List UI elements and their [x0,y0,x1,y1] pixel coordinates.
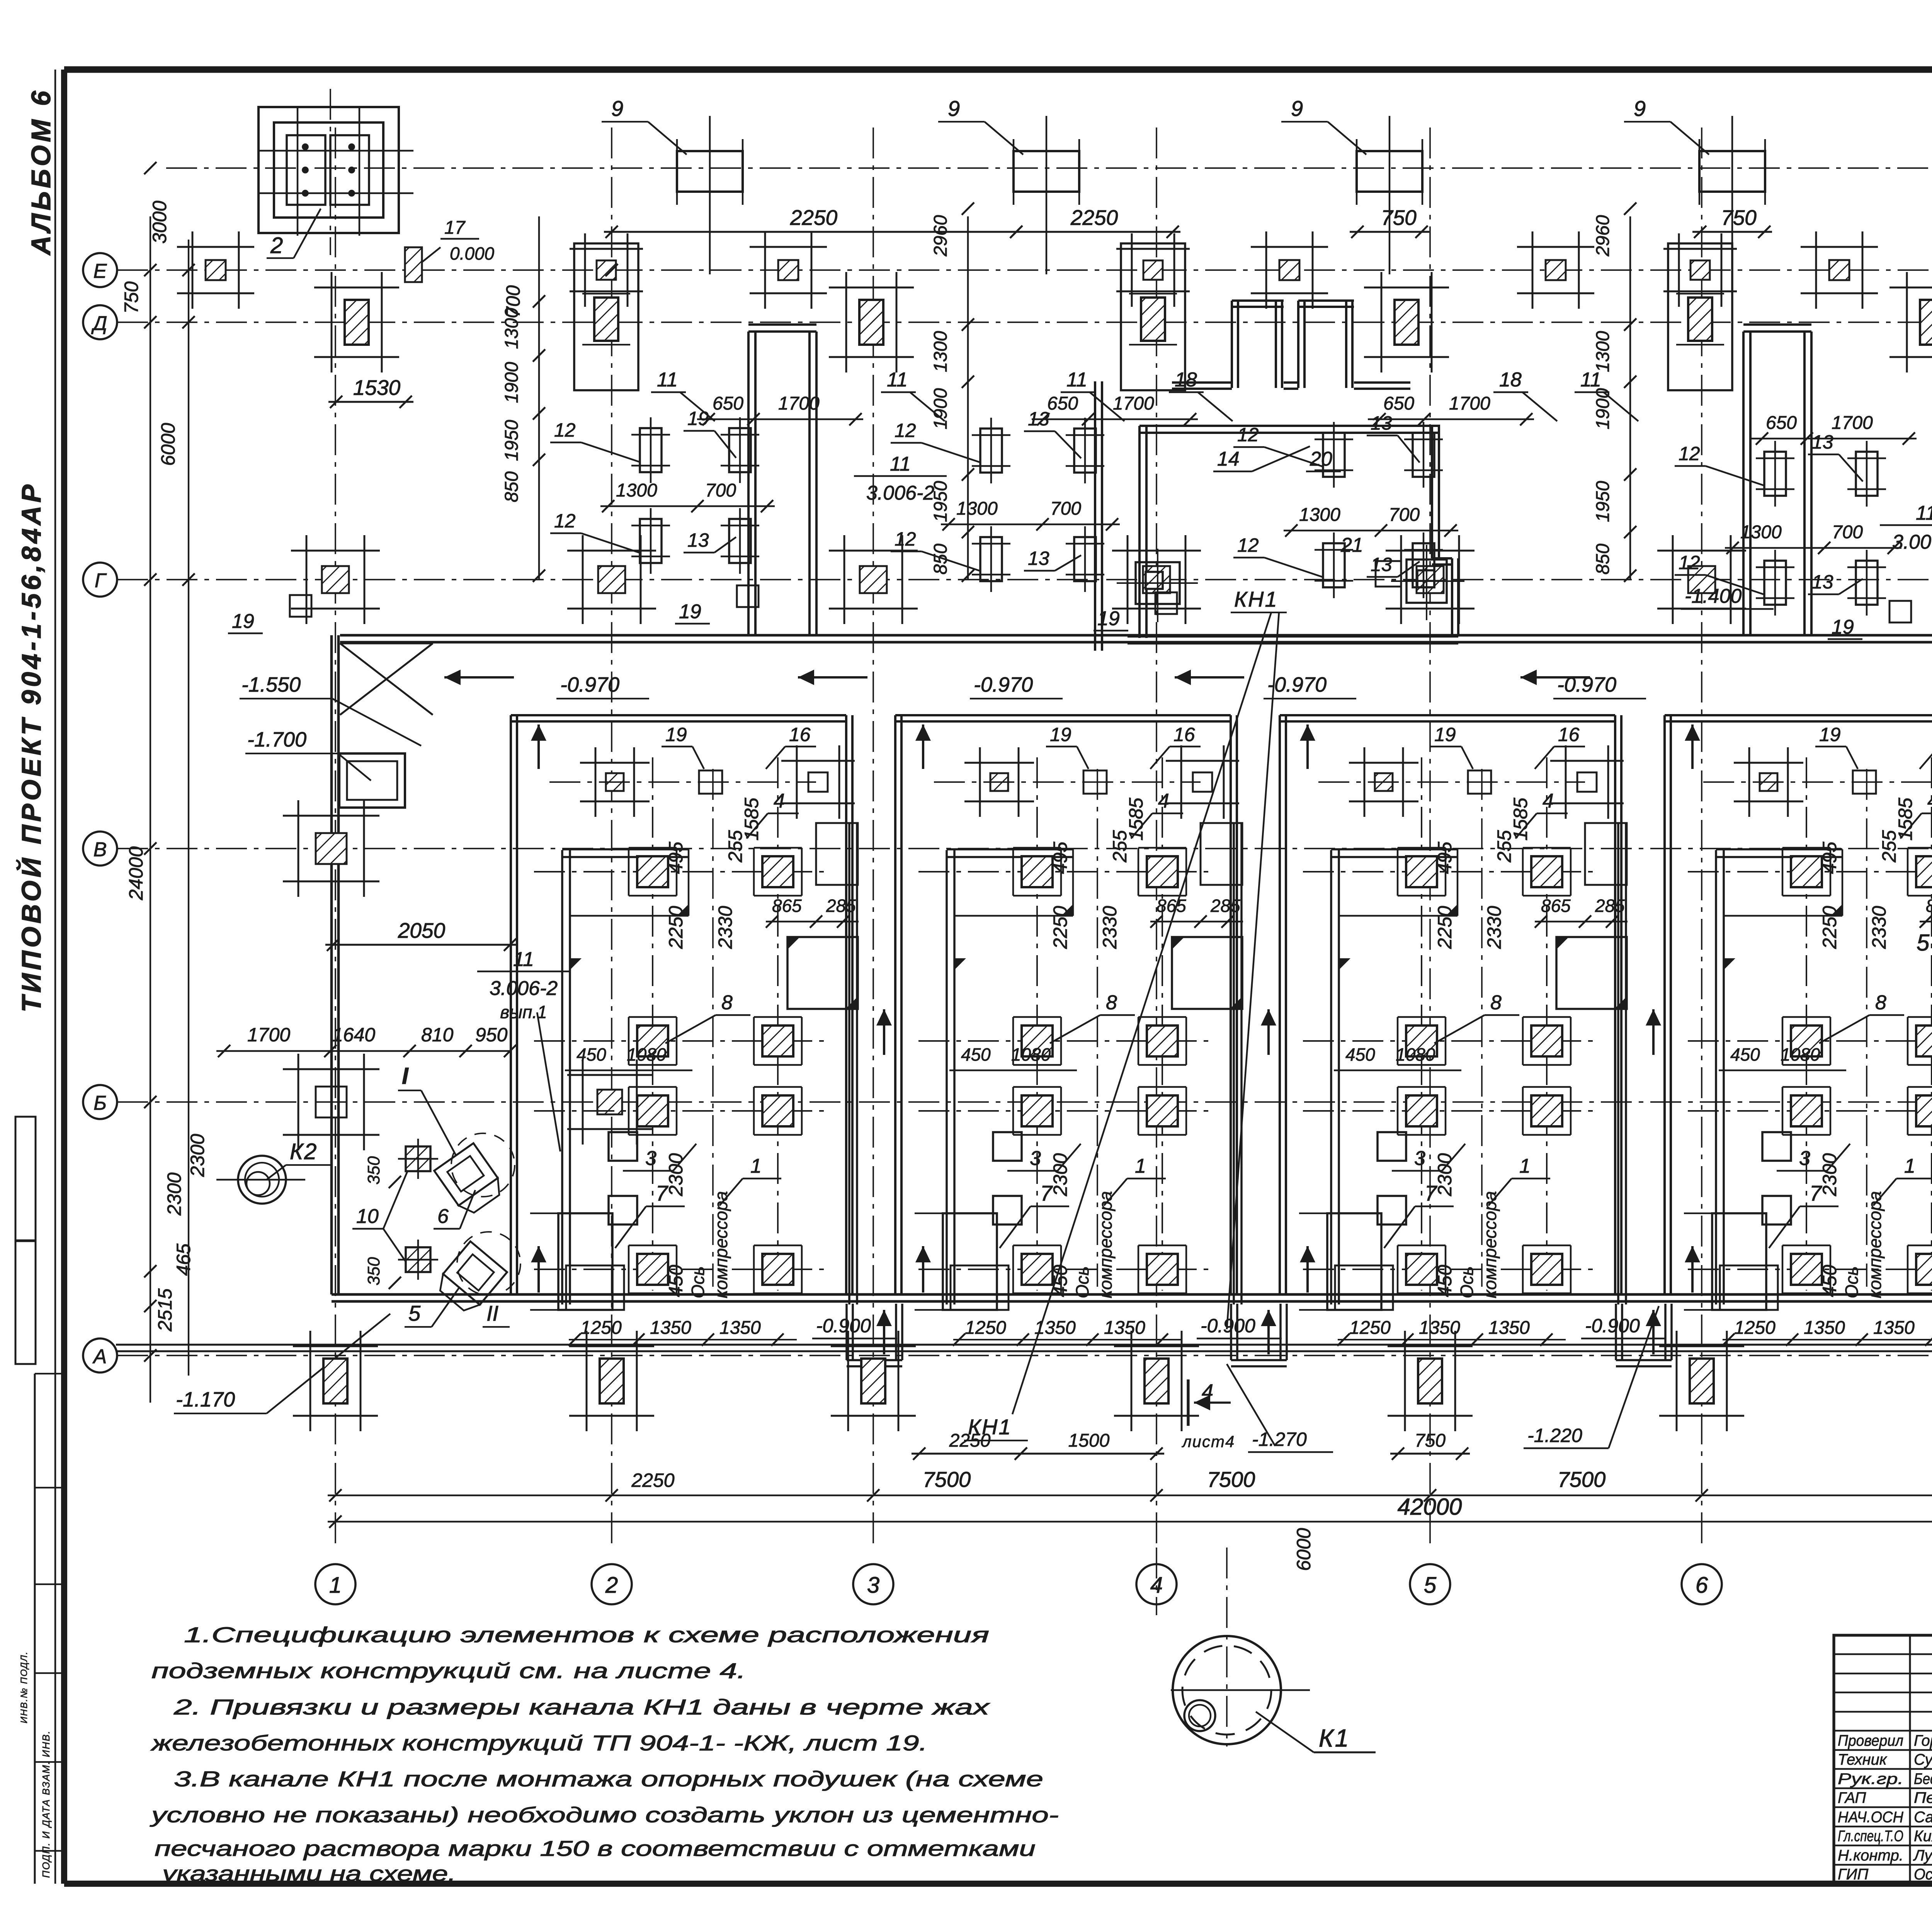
svg-text:495: 495 [1049,842,1071,874]
svg-text:865: 865 [772,896,802,916]
svg-text:1700: 1700 [1449,393,1490,414]
svg-text:-1.700: -1.700 [247,728,306,751]
svg-text:3: 3 [645,1147,656,1170]
svg-text:1250: 1250 [1349,1318,1391,1338]
svg-text:285: 285 [826,896,856,916]
svg-text:17: 17 [444,218,466,238]
svg-text:4: 4 [1543,790,1554,812]
svg-text:7: 7 [1810,1181,1822,1205]
svg-text:700: 700 [705,480,736,501]
svg-text:19: 19 [1097,607,1120,630]
svg-text:1500: 1500 [1068,1430,1110,1451]
svg-text:Г: Г [95,570,107,592]
svg-text:1: 1 [750,1155,762,1177]
svg-text:1: 1 [329,1573,342,1598]
svg-text:285: 285 [1210,896,1240,916]
svg-text:3: 3 [867,1573,879,1598]
svg-text:-1.400: -1.400 [1685,585,1742,607]
svg-text:2250: 2250 [665,906,687,949]
svg-text:24000: 24000 [125,846,147,900]
svg-text:1250: 1250 [1734,1318,1776,1338]
svg-text:20: 20 [1310,448,1332,470]
svg-text:16: 16 [1173,724,1195,745]
svg-text:13: 13 [1812,431,1833,453]
svg-text:850: 850 [502,471,522,502]
svg-text:1300: 1300 [1593,331,1613,372]
svg-text:2: 2 [270,233,283,258]
svg-text:450: 450 [1730,1044,1760,1065]
svg-text:1350: 1350 [1419,1318,1460,1338]
svg-text:450: 450 [1049,1265,1071,1297]
svg-text:7500: 7500 [1558,1467,1606,1492]
svg-text:4: 4 [1158,790,1169,812]
svg-text:2960: 2960 [930,215,951,257]
svg-text:12: 12 [1237,534,1259,556]
svg-text:6: 6 [1696,1573,1708,1598]
svg-text:железобетонных конструкций Т: железобетонных конструкций ТП 904-1- -КЖ… [150,1731,927,1755]
svg-text:4: 4 [1927,790,1932,812]
svg-text:1350: 1350 [1488,1318,1530,1338]
svg-text:3.В канале КН1 после монтаж: 3.В канале КН1 после монтажа опорных под… [174,1767,1043,1791]
svg-text:Е: Е [94,260,107,282]
svg-text:1950: 1950 [1593,481,1613,522]
svg-text:ПОДП. И ДАТА ВЗАМ. ИНВ.: ПОДП. И ДАТА ВЗАМ. ИНВ. [40,1730,52,1878]
svg-text:-0.900: -0.900 [816,1315,871,1337]
svg-text:1530: 1530 [353,376,401,400]
svg-text:1300: 1300 [1299,505,1340,525]
svg-text:13: 13 [1371,554,1392,575]
svg-text:6000: 6000 [1293,1528,1315,1571]
svg-text:3: 3 [1799,1147,1810,1170]
svg-text:Б: Б [94,1092,107,1114]
svg-text:1080: 1080 [1396,1044,1435,1065]
svg-text:подземных конструкций см.: подземных конструкций см. на листе 4. [151,1658,746,1683]
svg-text:450: 450 [577,1044,606,1065]
svg-text:10: 10 [356,1205,379,1228]
svg-text:285: 285 [1595,896,1625,916]
svg-text:3.006-2: 3.006-2 [490,977,558,1000]
svg-text:компрессора: компрессора [1865,1191,1885,1298]
svg-text:2250: 2250 [1070,206,1118,230]
svg-text:865: 865 [1541,896,1571,916]
svg-text:1300: 1300 [616,480,657,501]
svg-text:Проверил: Проверил [1838,1732,1903,1749]
svg-text:1700: 1700 [778,393,820,414]
svg-text:2330: 2330 [1099,906,1121,949]
svg-text:К2: К2 [290,1139,318,1164]
svg-text:Д: Д [91,312,107,335]
svg-text:-0.970: -0.970 [1267,673,1327,696]
svg-text:19: 19 [232,610,254,633]
svg-text:2050: 2050 [398,918,446,942]
svg-text:-0.970: -0.970 [974,673,1033,696]
svg-text:21: 21 [1340,534,1363,556]
svg-text:12: 12 [1237,424,1259,446]
svg-text:350: 350 [364,1156,383,1185]
svg-text:850: 850 [930,544,951,575]
svg-text:1950: 1950 [930,481,951,522]
svg-text:42000: 42000 [1398,1494,1462,1520]
svg-text:12: 12 [554,510,576,532]
svg-text:19: 19 [665,724,687,745]
svg-text:19: 19 [1050,724,1071,745]
svg-text:465: 465 [173,1243,194,1276]
svg-text:Горская: Горская [1914,1732,1932,1749]
svg-text:Ось: Ось [688,1266,708,1298]
svg-text:650: 650 [1047,393,1078,414]
svg-text:750: 750 [121,281,142,314]
svg-text:12: 12 [1679,443,1700,464]
svg-text:3000: 3000 [149,201,170,243]
svg-text:11: 11 [890,453,911,475]
svg-text:песчаного раствора марки 150: песчаного раствора марки 150 в соответст… [155,1836,1036,1861]
svg-text:2250: 2250 [1049,906,1071,949]
svg-text:865: 865 [1926,896,1932,916]
svg-text:6: 6 [437,1205,449,1228]
svg-text:4: 4 [1202,1380,1213,1403]
svg-text:Кияшко: Кияшко [1914,1828,1932,1845]
svg-text:1080: 1080 [1781,1044,1820,1065]
svg-text:650: 650 [1766,413,1797,433]
svg-text:11: 11 [887,369,908,391]
svg-text:-0.970: -0.970 [560,673,619,696]
svg-text:Ось: Ось [1457,1266,1477,1298]
svg-text:АЛЬБОМ 6: АЛЬБОМ 6 [26,88,56,256]
svg-text:1250: 1250 [965,1318,1006,1338]
svg-text:I: I [402,1063,409,1089]
svg-text:18: 18 [1499,369,1522,391]
svg-text:865: 865 [1156,896,1186,916]
svg-text:9: 9 [948,96,960,121]
svg-text:Осташевский: Осташевский [1914,1866,1932,1883]
svg-text:2330: 2330 [1483,906,1505,949]
svg-text:Рук.гр.: Рук.гр. [1838,1770,1903,1787]
svg-text:12: 12 [895,420,916,441]
svg-text:6000: 6000 [157,423,179,466]
svg-text:11: 11 [1916,502,1932,524]
svg-text:указанными на схеме.: указанными на схеме. [160,1861,456,1886]
svg-text:2: 2 [605,1573,618,1598]
svg-text:7: 7 [1040,1181,1053,1205]
svg-text:1585: 1585 [741,798,762,840]
svg-text:1585: 1585 [1125,798,1147,840]
svg-text:1585: 1585 [1895,798,1916,840]
svg-text:1900: 1900 [502,362,522,403]
svg-text:-0.900: -0.900 [1585,1315,1640,1337]
svg-text:495: 495 [665,842,687,874]
svg-text:700: 700 [1050,498,1081,519]
svg-text:12: 12 [1679,552,1700,573]
svg-text:13: 13 [1028,548,1049,569]
svg-text:0.000: 0.000 [450,243,495,264]
svg-text:2960: 2960 [1593,215,1613,257]
svg-text:495: 495 [1819,842,1840,874]
svg-text:1350: 1350 [1104,1318,1145,1338]
svg-text:-1.270: -1.270 [1252,1429,1307,1450]
svg-text:8: 8 [1490,992,1502,1014]
svg-text:II: II [486,1301,498,1325]
svg-text:2250: 2250 [1819,906,1840,949]
svg-text:Н.контр.: Н.контр. [1838,1847,1903,1864]
svg-text:7: 7 [656,1181,668,1205]
svg-text:Ось: Ось [1072,1266,1092,1298]
svg-text:7500: 7500 [923,1467,971,1492]
svg-text:1350: 1350 [650,1318,691,1338]
svg-text:18: 18 [1175,369,1197,391]
svg-text:лист4: лист4 [1181,1432,1235,1451]
svg-text:3: 3 [1414,1147,1425,1170]
svg-text:810: 810 [421,1024,454,1046]
svg-text:Ось: Ось [1842,1266,1862,1298]
svg-text:2. Привязки и размеры канал: 2. Привязки и размеры канала КН1 даны в … [173,1695,990,1719]
svg-text:1300: 1300 [1740,522,1782,543]
svg-text:3.006-2: 3.006-2 [866,482,934,504]
svg-text:12: 12 [554,419,576,441]
svg-text:вып.1: вып.1 [500,1002,547,1022]
svg-text:В: В [94,838,107,861]
svg-text:Гл.спец.Т.О: Гл.спец.Т.О [1838,1828,1903,1845]
svg-text:2300: 2300 [163,1172,185,1216]
svg-text:16: 16 [1558,724,1580,745]
svg-text:Бескоровайный: Бескоровайный [1914,1770,1932,1787]
svg-text:650: 650 [1383,393,1414,414]
svg-text:13: 13 [1371,412,1392,434]
svg-text:5: 5 [1917,930,1930,956]
svg-text:495: 495 [1434,842,1456,874]
svg-text:9: 9 [1291,96,1303,121]
svg-text:4: 4 [774,790,785,812]
svg-text:950: 950 [475,1024,508,1046]
svg-text:1350: 1350 [1804,1318,1845,1338]
svg-text:350: 350 [364,1257,383,1286]
svg-text:450: 450 [961,1044,991,1065]
svg-text:450: 450 [1345,1044,1375,1065]
svg-text:650: 650 [713,393,743,414]
svg-text:8: 8 [721,992,733,1014]
svg-text:КН1: КН1 [968,1415,1012,1439]
svg-text:1700: 1700 [1113,393,1154,414]
svg-text:А: А [92,1345,107,1368]
svg-text:9: 9 [611,96,623,121]
svg-text:2250: 2250 [790,206,838,230]
svg-text:1900: 1900 [930,388,951,429]
svg-text:2250: 2250 [631,1469,674,1491]
svg-text:8: 8 [1875,992,1886,1014]
svg-text:19: 19 [1819,724,1841,745]
svg-text:750: 750 [1721,206,1757,230]
svg-text:ТИПОВОЙ ПРОЕКТ 904-1-56,84: ТИПОВОЙ ПРОЕКТ 904-1-56,84АР [15,481,46,1012]
svg-text:1585: 1585 [1510,798,1531,840]
svg-text:9: 9 [1634,96,1646,121]
svg-text:Петровский: Петровский [1914,1789,1932,1806]
svg-text:1350: 1350 [719,1318,761,1338]
svg-text:КН1: КН1 [1234,587,1278,611]
svg-text:К1: К1 [1319,1724,1350,1752]
svg-text:2330: 2330 [714,906,736,949]
svg-text:14: 14 [1217,448,1240,470]
svg-text:13: 13 [687,529,709,551]
svg-text:2515: 2515 [154,1288,176,1332]
svg-text:1300: 1300 [956,498,998,519]
svg-text:19: 19 [1434,724,1456,745]
svg-text:3.006-2: 3.006-2 [1892,531,1932,553]
svg-text:11: 11 [657,369,678,391]
svg-text:5: 5 [408,1301,421,1325]
svg-text:условно не показаны) необхо: условно не показаны) необходимо создать … [149,1803,1059,1827]
svg-text:компрессора: компрессора [1480,1191,1500,1298]
svg-text:700: 700 [1832,522,1863,543]
svg-text:2330: 2330 [1868,906,1890,949]
svg-text:850: 850 [1593,544,1613,575]
svg-text:Луценко: Луценко [1913,1847,1932,1864]
svg-text:1350: 1350 [1034,1318,1076,1338]
svg-text:1700: 1700 [247,1024,290,1046]
svg-text:3: 3 [1030,1147,1041,1170]
svg-text:НАЧ.ОСН: НАЧ.ОСН [1838,1809,1903,1826]
svg-text:11: 11 [1066,369,1087,391]
svg-text:1080: 1080 [1011,1044,1051,1065]
svg-text:7500: 7500 [1207,1467,1255,1492]
svg-text:компрессора: компрессора [1095,1191,1116,1298]
svg-text:1: 1 [1904,1155,1915,1177]
svg-text:1700: 1700 [1832,413,1873,433]
svg-text:-0.900: -0.900 [1201,1315,1255,1337]
svg-text:Суман: Суман [1914,1751,1932,1768]
svg-text:450: 450 [665,1265,687,1297]
svg-text:Саакьянц: Саакьянц [1914,1809,1932,1826]
svg-text:750: 750 [1381,206,1417,230]
svg-text:ГИП: ГИП [1838,1866,1869,1883]
svg-text:450: 450 [1819,1265,1840,1297]
svg-text:1640: 1640 [332,1024,375,1046]
svg-text:Техник: Техник [1838,1751,1888,1768]
svg-text:5: 5 [1424,1573,1437,1598]
svg-text:750: 750 [1415,1430,1446,1451]
svg-text:450: 450 [1434,1265,1456,1297]
svg-text:ИНВ.№ ПОДЛ.: ИНВ.№ ПОДЛ. [19,1651,29,1723]
svg-text:1350: 1350 [1873,1318,1915,1338]
svg-text:1: 1 [1135,1155,1146,1177]
svg-text:700: 700 [1389,505,1420,525]
svg-text:1950: 1950 [502,420,522,461]
svg-text:16: 16 [789,724,811,745]
svg-text:-1.550: -1.550 [241,673,301,696]
svg-text:компрессора: компрессора [711,1191,731,1298]
svg-text:13: 13 [1812,571,1833,593]
svg-text:19: 19 [679,600,701,623]
svg-text:2300: 2300 [187,1134,208,1177]
svg-text:1.Спецификацию элементов к: 1.Спецификацию элементов к схеме располо… [184,1622,989,1647]
svg-text:1: 1 [1519,1155,1531,1177]
svg-text:ГАП: ГАП [1838,1789,1866,1806]
svg-text:2250: 2250 [1434,906,1456,949]
svg-text:-1.170: -1.170 [176,1388,235,1411]
svg-text:8: 8 [1106,992,1117,1014]
svg-text:12: 12 [895,528,916,550]
svg-text:1300: 1300 [930,331,951,372]
svg-text:7: 7 [1425,1181,1437,1205]
svg-text:1900: 1900 [1593,388,1613,429]
svg-text:1080: 1080 [627,1044,667,1065]
svg-text:1300: 1300 [502,308,522,349]
svg-text:-1.220: -1.220 [1527,1425,1582,1446]
